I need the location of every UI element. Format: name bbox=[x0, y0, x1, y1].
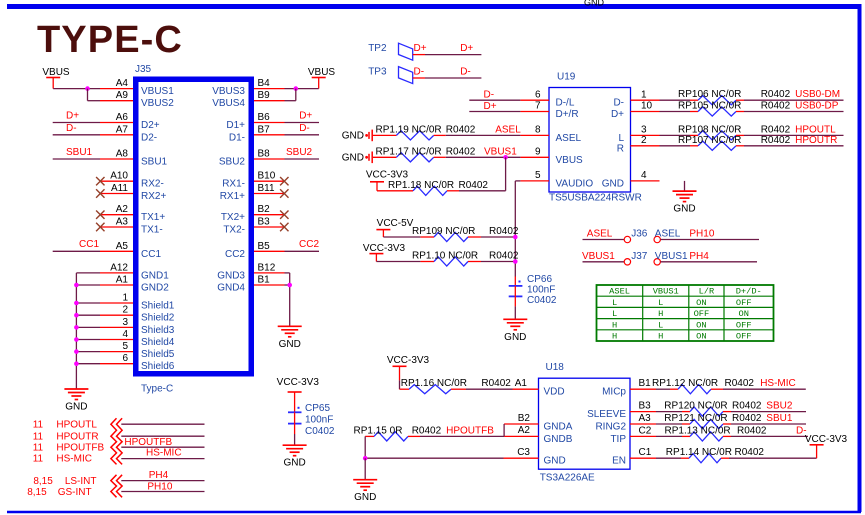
svg-text:TX2-: TX2- bbox=[223, 225, 245, 236]
svg-text:RX2+: RX2+ bbox=[141, 191, 166, 202]
svg-text:R0402: R0402 bbox=[732, 413, 762, 424]
svg-text:D+/D-: D+/D- bbox=[736, 287, 762, 297]
svg-text:VBUS: VBUS bbox=[42, 67, 70, 78]
svg-text:ASEL: ASEL bbox=[587, 229, 613, 240]
svg-text:C2: C2 bbox=[639, 425, 652, 436]
svg-text:A7: A7 bbox=[116, 124, 129, 135]
J35 pin B6 (D1+) bbox=[226, 112, 284, 131]
wire D+ to U19 pin 7 bbox=[469, 101, 520, 112]
svg-text:RP1.19 NC/0R: RP1.19 NC/0R bbox=[376, 124, 442, 135]
wire RP1.18 to VBUS1 net bbox=[459, 190, 506, 192]
net label VBUS1 / wire to U19 bbox=[446, 146, 521, 157]
U18 pin B1 (MICp) bbox=[602, 378, 656, 398]
svg-text:CC1: CC1 bbox=[79, 239, 99, 250]
svg-text:SLEEVE: SLEEVE bbox=[587, 409, 626, 420]
svg-text:J37: J37 bbox=[631, 251, 648, 262]
svg-text:C3: C3 bbox=[517, 447, 530, 458]
U18 pin C2 (TIP) bbox=[610, 425, 656, 445]
svg-text:ASEL: ASEL bbox=[655, 229, 681, 240]
svg-text:ASEL: ASEL bbox=[609, 287, 630, 297]
J35 pin B9 (VBUS4) bbox=[212, 90, 284, 109]
J35 pin B12 (GND3) bbox=[217, 262, 284, 281]
svg-text:J35: J35 bbox=[135, 64, 152, 75]
svg-text:R0402: R0402 bbox=[446, 146, 476, 157]
resistor RP1.17 NC/0R R0402 bbox=[373, 146, 476, 162]
J35 pin 5 (Shield5) bbox=[100, 341, 175, 360]
svg-text:RX2-: RX2- bbox=[141, 179, 164, 190]
off-page ref 11 HPOUTR / wire bbox=[33, 431, 205, 442]
off-page ref 11 HS-MIC / wire / net label HS-MIC bbox=[33, 448, 205, 465]
svg-text:TP3: TP3 bbox=[368, 67, 387, 78]
svg-text:VBUS4: VBUS4 bbox=[212, 98, 245, 109]
svg-text:B8: B8 bbox=[258, 149, 271, 160]
wire U19 pin5 VAUDIO down bbox=[515, 181, 520, 277]
svg-text:B2: B2 bbox=[258, 204, 271, 215]
svg-text:RP1.10 NC/0R: RP1.10 NC/0R bbox=[412, 251, 478, 262]
J35 pin A11 (RX2+) bbox=[100, 183, 166, 202]
svg-text:4: 4 bbox=[122, 329, 128, 340]
power symbol VCC-3V3 (at RP1.16) bbox=[387, 355, 430, 389]
junction at B1 row bbox=[287, 283, 292, 288]
svg-text:B11: B11 bbox=[258, 183, 275, 194]
ground symbol (shield bus) bbox=[64, 389, 88, 413]
svg-text:D-/L: D-/L bbox=[556, 98, 575, 109]
svg-text:A4: A4 bbox=[116, 78, 129, 89]
net label D- / wire bbox=[731, 425, 808, 436]
wire GND bus from A12 bbox=[76, 273, 100, 389]
ground symbol (CP66) bbox=[503, 319, 527, 343]
svg-text:GND2: GND2 bbox=[141, 283, 169, 294]
svg-text:11: 11 bbox=[33, 454, 44, 465]
svg-text:B12: B12 bbox=[258, 262, 276, 273]
wire B4 to VBUS (right) bbox=[285, 88, 319, 90]
svg-text:HPOUTR: HPOUTR bbox=[56, 431, 98, 442]
wire D- to U19 pin 6 bbox=[469, 90, 520, 101]
net label HPOUTFB / wire to U18 GNDA-GNDB bbox=[420, 424, 504, 436]
svg-text:D+: D+ bbox=[611, 109, 624, 120]
svg-text:RP1.12 NC/0R: RP1.12 NC/0R bbox=[652, 378, 718, 389]
svg-text:MICp: MICp bbox=[602, 387, 626, 398]
no-connect X on pin B3 bbox=[280, 223, 288, 231]
svg-text:L: L bbox=[612, 309, 617, 319]
wire GND bus branch at y=363.7 bbox=[74, 361, 100, 366]
resistor RP1.13 NC/0R R0402 bbox=[656, 425, 767, 441]
svg-text:D+: D+ bbox=[414, 43, 427, 54]
svg-text:D+: D+ bbox=[460, 43, 473, 54]
svg-text:TS3A226AE: TS3A226AE bbox=[540, 473, 595, 484]
no-connect X on pin B2 bbox=[280, 211, 288, 219]
svg-text:USB0-DP: USB0-DP bbox=[795, 101, 839, 112]
junction on VBUS net (right) bbox=[294, 86, 299, 91]
svg-text:Shield1: Shield1 bbox=[141, 301, 175, 312]
svg-text:1: 1 bbox=[122, 293, 128, 304]
resistor RP120 NC/0R R0402 bbox=[656, 401, 762, 417]
wire CP66 to ground bbox=[514, 306, 516, 319]
power symbol VCC-3V3 (at RP1.14) bbox=[805, 434, 848, 445]
power symbol VBUS (left) bbox=[42, 67, 70, 89]
svg-text:GND: GND bbox=[342, 152, 364, 163]
svg-text:A2: A2 bbox=[518, 425, 531, 436]
svg-text:A6: A6 bbox=[116, 112, 129, 123]
svg-text:11: 11 bbox=[33, 442, 44, 453]
J35 pin A8 (SBU1) bbox=[100, 149, 168, 168]
svg-text:SBU1: SBU1 bbox=[766, 413, 793, 424]
svg-text:VCC-3V3: VCC-3V3 bbox=[277, 377, 320, 388]
wire GND bus branch at y=285.0 bbox=[74, 283, 100, 288]
svg-text:D-: D- bbox=[414, 67, 425, 78]
svg-text:R0402: R0402 bbox=[761, 124, 791, 135]
svg-text:8,15: 8,15 bbox=[33, 476, 53, 487]
svg-text:TYPE-C: TYPE-C bbox=[37, 19, 183, 61]
wire GND bus branch at y=339.5 bbox=[74, 337, 100, 342]
svg-text:B4: B4 bbox=[258, 78, 271, 89]
svg-text:VCC-3V3: VCC-3V3 bbox=[387, 355, 430, 366]
no-connect X on pin A10 bbox=[96, 177, 104, 185]
resistor RP1.10 NC/0R R0402 bbox=[412, 251, 519, 267]
svg-text:7: 7 bbox=[535, 101, 541, 112]
svg-text:11: 11 bbox=[33, 431, 44, 442]
svg-text:VAUDIO: VAUDIO bbox=[556, 178, 594, 189]
svg-text:GND: GND bbox=[65, 402, 87, 413]
svg-text:A12: A12 bbox=[110, 262, 128, 273]
svg-text:GS-INT: GS-INT bbox=[58, 487, 92, 498]
svg-text:RP1.16 NC/0R: RP1.16 NC/0R bbox=[401, 378, 467, 389]
svg-text:H: H bbox=[658, 332, 663, 342]
truth table ASEL/VBUS1/L-R/D+D- bbox=[597, 285, 774, 342]
J35 pin A10 (RX2-) bbox=[100, 171, 164, 190]
resistor RP121 NC/0R R0402 bbox=[656, 413, 762, 429]
svg-text:Shield5: Shield5 bbox=[141, 349, 175, 360]
U18 pin B2 (GNDA) bbox=[504, 413, 573, 433]
net label CC1 / wire to A5 bbox=[53, 239, 100, 251]
svg-text:GND: GND bbox=[584, 0, 605, 8]
J35 pin A9 (VBUS2) bbox=[100, 90, 174, 109]
svg-text:B10: B10 bbox=[258, 171, 276, 182]
U19 pin 1 (D-) bbox=[613, 89, 659, 108]
svg-text:RP109 NC/0R: RP109 NC/0R bbox=[412, 226, 475, 237]
svg-text:B7: B7 bbox=[258, 124, 271, 135]
svg-text:L: L bbox=[658, 320, 663, 330]
svg-text:B6: B6 bbox=[258, 112, 271, 123]
resistor RP1.18 NC/0R R0402 bbox=[377, 180, 488, 196]
jumper J37 (VBUS1-PH4) bbox=[582, 251, 688, 265]
svg-text:R0402: R0402 bbox=[459, 180, 489, 191]
U18 pin A2 (GNDB) bbox=[504, 425, 573, 445]
svg-text:D-: D- bbox=[613, 98, 624, 109]
svg-text:HPOUTFB: HPOUTFB bbox=[446, 425, 494, 436]
J35 pin B1 (GND4) bbox=[217, 275, 284, 294]
svg-text:CC2: CC2 bbox=[299, 239, 319, 250]
svg-text:SBU2: SBU2 bbox=[766, 401, 793, 412]
no-connect X on pin A2 bbox=[96, 211, 104, 219]
svg-text:ON: ON bbox=[696, 320, 706, 330]
svg-text:HPOUTR: HPOUTR bbox=[795, 135, 837, 146]
wire C3 row to ground bbox=[363, 456, 504, 480]
svg-text:HPOUTFB: HPOUTFB bbox=[56, 442, 104, 453]
svg-text:GND4: GND4 bbox=[217, 283, 245, 294]
ground symbol (sideways) bbox=[342, 130, 372, 142]
svg-text:VBUS1: VBUS1 bbox=[582, 251, 615, 262]
svg-text:11: 11 bbox=[33, 419, 44, 430]
J35 pin A1 (GND2) bbox=[100, 275, 169, 294]
svg-text:R0402: R0402 bbox=[761, 89, 791, 100]
svg-text:VBUS1: VBUS1 bbox=[653, 287, 679, 297]
title TYPE-C bbox=[37, 19, 183, 61]
J35 pin A4 (VBUS1) bbox=[100, 78, 174, 97]
no-connect X on pin B10 bbox=[280, 177, 288, 185]
U19 pin 5 (VAUDIO) bbox=[520, 170, 593, 189]
junction on VBUS net (left) bbox=[85, 86, 90, 91]
net label D- / wire from B7 bbox=[285, 123, 320, 135]
resistor RP107 NC/0R R0402 bbox=[660, 135, 791, 151]
U19 pin 3 (L) bbox=[618, 125, 659, 144]
svg-text:VBUS1: VBUS1 bbox=[484, 146, 517, 157]
resistor RP1.14 NC/0R R0402 bbox=[656, 447, 764, 463]
svg-text:B5: B5 bbox=[258, 241, 271, 252]
J35 pin B2 (TX2+) bbox=[221, 204, 285, 223]
svg-text:H: H bbox=[658, 309, 663, 319]
wire U19 pin4 to ground bbox=[684, 181, 686, 191]
net label SBU1 / wire bbox=[731, 413, 806, 424]
U19 pin 9 (VBUS) bbox=[520, 147, 583, 166]
svg-text:RX1+: RX1+ bbox=[220, 191, 245, 202]
svg-text:D+: D+ bbox=[484, 101, 497, 112]
svg-text:HPOUTFB: HPOUTFB bbox=[124, 437, 172, 448]
svg-text:VBUS2: VBUS2 bbox=[141, 98, 174, 109]
wire RP1.14 to VCC-3V3 bbox=[729, 445, 817, 458]
svg-text:D2+: D2+ bbox=[141, 120, 160, 131]
off-page connector group (LS-INT/GS-INT) bbox=[111, 475, 122, 498]
wire GND bus branch at y=351.6 bbox=[74, 349, 100, 354]
svg-text:A1: A1 bbox=[515, 378, 528, 389]
capacitor CP65 100nF C0402 bbox=[288, 392, 335, 437]
svg-text:VBUS1: VBUS1 bbox=[141, 86, 174, 97]
svg-text:HPOUTL: HPOUTL bbox=[795, 124, 836, 135]
wire RP109 to VAUDIO net bbox=[383, 235, 517, 240]
node GND (cropped at top edge) bbox=[584, 0, 605, 8]
junction VBUS1 at U19 pin 9 bbox=[503, 155, 508, 160]
svg-text:RP120 NC/0R: RP120 NC/0R bbox=[664, 401, 727, 412]
op-amp U18 TS3A226AE body bbox=[539, 362, 631, 484]
wire VBUS to A4 bbox=[53, 88, 100, 90]
svg-text:9: 9 bbox=[535, 147, 541, 158]
svg-text:A5: A5 bbox=[116, 241, 129, 252]
J35 pin A2 (TX1+) bbox=[100, 204, 165, 223]
svg-text:2: 2 bbox=[122, 305, 128, 316]
svg-text:OFF: OFF bbox=[736, 320, 752, 330]
svg-text:D-: D- bbox=[66, 123, 77, 134]
svg-text:HPOUTL: HPOUTL bbox=[56, 419, 97, 430]
svg-text:Shield6: Shield6 bbox=[141, 361, 175, 372]
resistor RP105 NC/0R R0402 bbox=[660, 101, 791, 117]
svg-text:VBUS1: VBUS1 bbox=[655, 251, 688, 262]
ground symbol (sideways) bbox=[342, 152, 372, 164]
svg-text:VCC-3V3: VCC-3V3 bbox=[805, 434, 848, 445]
svg-text:8,15: 8,15 bbox=[27, 487, 47, 498]
svg-text:C0402: C0402 bbox=[527, 295, 557, 306]
svg-text:CC2: CC2 bbox=[225, 249, 245, 260]
svg-text:VBUS3: VBUS3 bbox=[212, 86, 245, 97]
svg-text:PH4: PH4 bbox=[149, 470, 169, 481]
svg-text:GND: GND bbox=[283, 458, 305, 469]
J35 pin A7 (D2-) bbox=[100, 124, 157, 143]
svg-text:L/R: L/R bbox=[699, 287, 715, 297]
off-page ref 8,15 LS-INT / wire / net label PH4 bbox=[33, 470, 204, 487]
svg-text:TX2+: TX2+ bbox=[221, 212, 245, 223]
wire VBUS branch to B9 bbox=[285, 89, 296, 101]
svg-text:R0402: R0402 bbox=[412, 425, 442, 436]
svg-text:EN: EN bbox=[612, 456, 626, 467]
svg-text:100nF: 100nF bbox=[527, 285, 555, 296]
net label D+ / wire to A6 bbox=[53, 111, 100, 123]
svg-text:8: 8 bbox=[535, 125, 541, 136]
svg-text:ASEL: ASEL bbox=[495, 124, 521, 135]
svg-text:5: 5 bbox=[535, 170, 541, 181]
svg-text:GND: GND bbox=[544, 456, 566, 467]
svg-text:Type-C: Type-C bbox=[141, 384, 173, 395]
svg-text:B9: B9 bbox=[258, 90, 271, 101]
svg-text:RP1.14 NC/0R: RP1.14 NC/0R bbox=[666, 447, 732, 458]
svg-text:GND: GND bbox=[504, 332, 526, 343]
net label HPOUTL / wire bbox=[744, 124, 844, 135]
U18 pin C1 (EN) bbox=[612, 447, 656, 467]
U18 pin B3 (SLEEVE) bbox=[587, 401, 656, 421]
resistor RP1.15 0R R0402 bbox=[354, 425, 442, 441]
net label CC2 / wire from B5 bbox=[285, 239, 320, 251]
svg-text:RP1.18 NC/0R: RP1.18 NC/0R bbox=[388, 180, 454, 191]
J35 pin B11 (RX1+) bbox=[220, 183, 285, 202]
test point TP2 bbox=[368, 43, 425, 60]
svg-text:R0402: R0402 bbox=[761, 101, 791, 112]
svg-text:J36: J36 bbox=[631, 229, 648, 240]
svg-text:A8: A8 bbox=[116, 149, 129, 160]
wire GND bus branch at y=315.2 bbox=[74, 313, 100, 318]
svg-text:B3: B3 bbox=[639, 401, 652, 412]
svg-text:5: 5 bbox=[122, 341, 128, 352]
off-page connector group (HPOUTL/HPOUTR/HPOUTFB/HS-MIC) bbox=[111, 418, 122, 464]
svg-text:TX1+: TX1+ bbox=[141, 212, 165, 223]
svg-text:GNDB: GNDB bbox=[544, 434, 573, 445]
off-page ref 11 HPOUTL / wire bbox=[33, 419, 205, 430]
connector J35 (Type-C) body bbox=[135, 64, 251, 395]
svg-text:RP1.15 0R: RP1.15 0R bbox=[354, 425, 403, 436]
svg-text:B1: B1 bbox=[258, 275, 271, 286]
net label SBU2 / wire bbox=[731, 401, 806, 412]
J35 pin A3 (TX1-) bbox=[100, 217, 163, 236]
svg-text:GND: GND bbox=[354, 492, 376, 503]
svg-text:L: L bbox=[658, 298, 663, 308]
svg-text:100nF: 100nF bbox=[305, 415, 333, 426]
svg-text:RP121 NC/0R: RP121 NC/0R bbox=[664, 413, 727, 424]
svg-text:A3: A3 bbox=[639, 413, 652, 424]
U19 pin 6 (D-/L) bbox=[520, 89, 574, 108]
svg-text:H: H bbox=[612, 320, 617, 330]
svg-text:A9: A9 bbox=[116, 90, 129, 101]
svg-text:D1-: D1- bbox=[229, 132, 245, 143]
J35 pin A12 (GND1) bbox=[100, 262, 169, 281]
wire B12/B1 to ground bbox=[285, 273, 290, 326]
svg-text:A3: A3 bbox=[116, 217, 129, 228]
net label PH10 / wire from J36 bbox=[661, 229, 760, 240]
net label D- / wire to A7 bbox=[53, 123, 100, 135]
wire VBUS1 down to RP1.18 bbox=[505, 157, 507, 191]
power symbol VCC-3V3 (at CP65) bbox=[277, 377, 320, 392]
svg-text:TX1-: TX1- bbox=[141, 225, 163, 236]
J35 pin B4 (VBUS3) bbox=[212, 78, 284, 97]
svg-text:D+: D+ bbox=[299, 111, 312, 122]
net label SBU1 / wire to A8 bbox=[53, 147, 100, 159]
U19 pin 4 (GND) bbox=[602, 170, 660, 189]
no-connect X on pin A3 bbox=[96, 223, 104, 231]
resistor RP109 NC/0R R0402 bbox=[412, 226, 519, 242]
svg-text:U19: U19 bbox=[557, 72, 576, 83]
net label ASEL / wire to U19 bbox=[446, 124, 521, 135]
resistor RP1.12 NC/0R R0402 bbox=[652, 378, 754, 394]
wire VBUS branch to A9 bbox=[88, 89, 101, 101]
svg-text:TS5USBA224RSWR: TS5USBA224RSWR bbox=[549, 193, 642, 204]
off-page ref 8,15 GS-INT / wire / net label PH10 bbox=[27, 481, 204, 498]
svg-text:CP66: CP66 bbox=[527, 274, 552, 285]
svg-text:D+/R: D+/R bbox=[556, 109, 579, 120]
U18 pin A1 (VDD) bbox=[513, 378, 565, 398]
svg-text:L: L bbox=[612, 298, 617, 308]
svg-text:GND: GND bbox=[342, 130, 364, 141]
svg-text:R: R bbox=[617, 143, 624, 154]
J35 pin 3 (Shield3) bbox=[100, 317, 175, 336]
svg-text:CC1: CC1 bbox=[141, 249, 161, 260]
svg-text:B3: B3 bbox=[258, 217, 271, 228]
svg-text:D-: D- bbox=[460, 67, 471, 78]
svg-text:D-: D- bbox=[299, 123, 310, 134]
svg-text:TP2: TP2 bbox=[368, 43, 387, 54]
U19 pin 7 (D+/R) bbox=[520, 101, 578, 120]
svg-text:RP108 NC/0R: RP108 NC/0R bbox=[678, 124, 741, 135]
svg-text:LS-INT: LS-INT bbox=[65, 476, 97, 487]
wire RP1.15 left to C3 net bbox=[364, 436, 366, 458]
svg-text:HS-MIC: HS-MIC bbox=[760, 378, 796, 389]
svg-text:R0402: R0402 bbox=[446, 124, 476, 135]
net label D- at TP3 / wire bbox=[414, 67, 482, 79]
svg-text:VBUS: VBUS bbox=[308, 67, 336, 78]
op-amp U19 TS5USBA224RSWR body bbox=[549, 72, 642, 204]
svg-text:R0402: R0402 bbox=[737, 425, 767, 436]
svg-text:B2: B2 bbox=[518, 413, 531, 424]
svg-text:PH4: PH4 bbox=[689, 251, 709, 262]
svg-text:GND3: GND3 bbox=[217, 270, 245, 281]
jumper J36 (ASEL-PH10) bbox=[583, 229, 681, 243]
svg-text:U18: U18 bbox=[546, 362, 565, 373]
svg-text:ASEL: ASEL bbox=[556, 133, 582, 144]
svg-text:ON: ON bbox=[739, 309, 749, 319]
svg-text:H: H bbox=[612, 332, 617, 342]
J35 pin A5 (CC1) bbox=[100, 241, 161, 260]
svg-text:R0402: R0402 bbox=[725, 378, 755, 389]
U19 pin 8 (ASEL) bbox=[520, 125, 581, 144]
resistor RP108 NC/0R R0402 bbox=[660, 124, 791, 140]
svg-text:A11: A11 bbox=[111, 183, 128, 194]
svg-text:D2-: D2- bbox=[141, 132, 157, 143]
svg-text:Shield3: Shield3 bbox=[141, 325, 175, 336]
J35 pin B5 (CC2) bbox=[225, 241, 285, 260]
wire CP65 to ground bbox=[294, 434, 296, 445]
svg-text:L: L bbox=[618, 133, 624, 144]
svg-text:R0402: R0402 bbox=[481, 378, 511, 389]
svg-text:B1: B1 bbox=[639, 378, 652, 389]
svg-text:A2: A2 bbox=[116, 204, 129, 215]
J35 pin 1 (Shield1) bbox=[100, 293, 175, 312]
svg-text:A1: A1 bbox=[116, 275, 129, 286]
wire RP1.10 to VAUDIO net bbox=[376, 259, 517, 264]
